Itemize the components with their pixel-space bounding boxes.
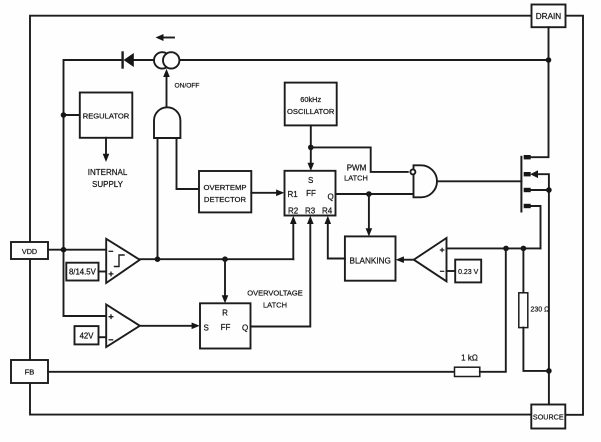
wire mosfet drain [529,27,548,157]
svg-text:R3: R3 [305,207,316,216]
wire gate output to mosfet [437,180,521,182]
node U1 input junction [155,256,161,262]
latch U5 PWM latch [285,171,336,216]
svg-text:BLANKING: BLANKING [349,257,390,266]
comparator U7 current limit [414,238,447,281]
wire VDD node vertical [63,250,65,316]
wire ON/OFF arrow [163,69,170,107]
svg-text:S: S [308,176,313,185]
wire current sense line [447,247,541,249]
svg-text:SUPPLY: SUPPLY [92,180,124,189]
svg-text:R1: R1 [288,190,299,199]
node sense-1k junction [503,246,509,252]
and-gate U6 output gate [410,165,437,197]
current source on/off switch [154,52,179,68]
wire regulator input [64,114,80,116]
block 0.23V reference [455,260,481,283]
wire right border [565,16,583,415]
pin FB [11,360,48,383]
wire comp3 minus to 0.23V [447,270,456,272]
svg-text:R: R [222,309,228,318]
svg-text:0.23 V: 0.23 V [458,269,479,276]
label PWM latch [344,164,368,183]
svg-text:FF: FF [306,189,316,198]
wire overvoltage R input arrow [222,259,229,303]
wire left border lower [30,259,531,415]
block blanking [345,236,396,280]
comparator U3 overvoltage [106,305,140,348]
wire VDD to comparator [48,249,106,251]
node VDD junction [61,247,67,253]
diode D1 [123,53,134,68]
wire 8/14.5V to comp1 [99,271,107,273]
node source-230 junction [546,368,552,374]
svg-text:PWM: PWM [347,164,367,173]
wire Q to blanking arrow [366,194,373,237]
wire mosfet bar3 [529,189,549,191]
regulator block [80,93,133,138]
svg-text:Q: Q [328,193,334,202]
wire oscillator to gate input [311,147,408,172]
svg-text:S: S [204,324,209,333]
wire U1 left input [157,138,159,259]
wire overvoltage Q to R3 [251,216,314,327]
svg-text:R2: R2 [288,207,299,216]
svg-text:8/14.5V: 8/14.5V [69,268,97,277]
block overtemp detector [199,171,251,212]
svg-text:DETECTOR: DETECTOR [204,195,247,204]
svg-text:FF: FF [221,323,231,332]
node regulator tap [61,112,67,118]
mosfet Q1 [521,155,538,212]
pin DRAIN [532,5,566,28]
svg-text:SOURCE: SOURCE [533,413,564,422]
wire comp1 output rail [140,258,293,260]
node Q junction [366,191,372,197]
wire 42V to comp2 [99,336,107,338]
svg-text:OVERVOLTAGE: OVERVOLTAGE [247,289,302,298]
label overvoltage latch [247,289,302,310]
svg-text:OVERTEMP: OVERTEMP [203,183,246,192]
pin SOURCE [531,405,565,429]
svg-text:60kHz: 60kHz [300,95,321,104]
wire oscillator to S arrow [308,147,315,171]
wire supply rail y=60 [64,60,123,250]
wire comp2 plus input [64,315,107,317]
wire sense to mosfet source [529,206,540,248]
svg-text:DRAIN: DRAIN [536,12,562,21]
wire top border [30,16,532,242]
latch U4 overvoltage latch [200,303,251,348]
node drain rail junction [546,57,552,63]
wire R2 input arrow [290,216,297,259]
svg-text:230 Ω: 230 Ω [531,307,550,314]
svg-text:FB: FB [25,368,35,377]
svg-text:OSCILLATOR: OSCILLATOR [287,107,335,116]
svg-text:VDD: VDD [22,247,37,256]
wire comp3 output to blanking arrow [396,256,414,263]
and-gate U1 on/off [154,107,180,138]
wire overtemp to R1 arrow [251,190,284,197]
pin VDD [11,242,48,259]
node R latch junction [222,256,228,262]
wire mosfet body to source [538,174,549,404]
node sense-230 junction [521,246,527,252]
svg-text:REGULATOR: REGULATOR [83,112,130,121]
node body junction [546,187,552,193]
wire oscillator output [310,125,312,147]
svg-text:INTERNAL: INTERNAL [88,168,128,177]
svg-text:LATCH: LATCH [263,301,287,310]
svg-text:R4: R4 [322,207,333,216]
svg-text:LATCH: LATCH [344,174,368,183]
arrow current direction [156,34,175,41]
comparator U2 undervoltage [106,239,140,283]
wire Q output to gate [336,193,414,195]
svg-text:ON/OFF: ON/OFF [175,83,200,90]
resistor 1kohm [48,248,506,376]
wire comp2 output arrow [140,323,200,330]
block 42V reference [75,326,99,344]
svg-text:1 kΩ: 1 kΩ [461,354,478,363]
wire blanking to R4 arrow [325,216,345,259]
wire U1 right input [177,138,200,189]
svg-text:42V: 42V [80,332,95,341]
block 60kHz oscillator [285,83,337,126]
label internal supply [88,168,128,189]
wire internal supply arrow [103,138,110,162]
block 8/14.5V reference [66,263,98,281]
svg-text:Q: Q [242,324,248,333]
node oscillator junction [308,145,314,151]
resistor 230ohm [519,248,550,371]
